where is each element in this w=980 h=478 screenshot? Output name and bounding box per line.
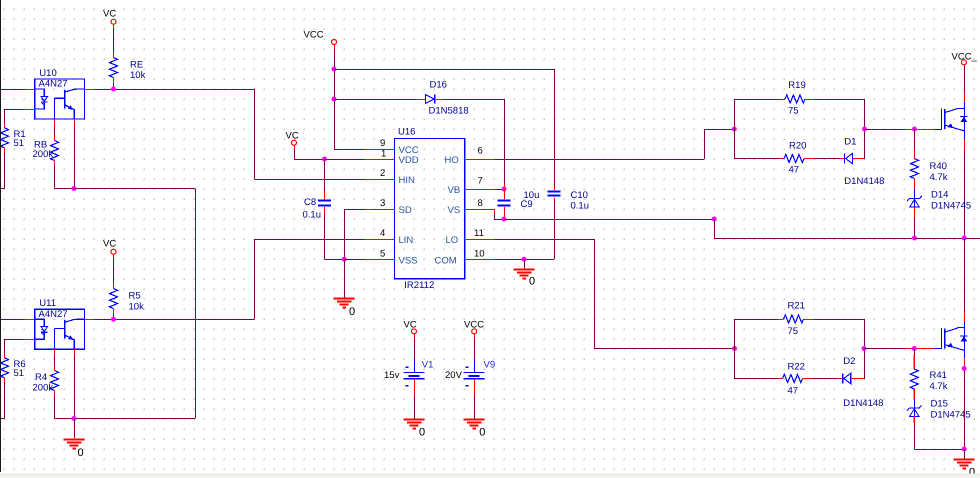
label D16 <box>430 79 447 90</box>
svg-text:VCC_: VCC_ <box>952 52 978 63</box>
svg-text:1: 1 <box>381 148 386 159</box>
svg-text:D1N5818: D1N5818 <box>429 106 469 117</box>
power terminal VCC (V9) <box>464 320 484 334</box>
ground (lower right) <box>954 460 975 469</box>
svg-text:R22: R22 <box>788 362 805 373</box>
pin name VB <box>448 185 461 196</box>
resistor R20 <box>784 155 804 163</box>
pin name COM <box>435 256 457 267</box>
wire U11 LED cathode <box>5 339 35 353</box>
junction right bar/gate wire (upper) <box>862 127 867 132</box>
wire COM ground stem <box>524 259 526 268</box>
wire collector to VCC_ (upper) <box>964 65 966 102</box>
svg-text:C8: C8 <box>304 197 316 208</box>
label R41 4.7k <box>930 370 948 392</box>
label R5 10k <box>129 291 145 313</box>
pin name LO <box>446 235 459 246</box>
wire emitter node to right riser <box>74 189 196 419</box>
svg-text:HIN: HIN <box>399 175 416 186</box>
power terminal VCC_ <box>952 52 978 65</box>
junction HO/network left bar <box>732 127 737 132</box>
svg-text:R5: R5 <box>129 291 141 302</box>
svg-text:R41: R41 <box>930 370 947 381</box>
pin number 7 <box>478 175 483 186</box>
label 0 (opto ground) <box>78 447 84 459</box>
label D14 <box>931 190 948 201</box>
optocoupler U10 <box>35 79 85 119</box>
wire R41 top <box>913 349 915 370</box>
junction R5/U11 collector <box>111 317 116 322</box>
wire C9 bottom to VS line <box>504 207 506 219</box>
svg-text:A4N27: A4N27 <box>39 309 68 320</box>
wire R4 bottom to emitter node <box>55 396 75 419</box>
pin name LIN <box>399 235 414 246</box>
resistor R5 <box>110 289 118 314</box>
junction U11 emitter/R4/ground <box>72 416 77 421</box>
svg-text:VC: VC <box>103 9 116 20</box>
junction VCC/D16 anode <box>332 97 337 102</box>
wire ground stem (lower right) <box>964 449 966 459</box>
wire C8 top <box>324 159 326 200</box>
svg-text:47: 47 <box>789 165 800 176</box>
wire VDD node to pin 1 <box>325 159 395 161</box>
diode D1 <box>845 153 853 163</box>
left window edge <box>0 0 1 472</box>
pin name SD <box>399 205 412 216</box>
wire LIN net to pin 4 <box>255 239 395 241</box>
power terminal VCC (top) <box>304 30 337 45</box>
junction gate/R41 <box>912 346 917 351</box>
pin 8 stub <box>465 209 495 211</box>
svg-text:D16: D16 <box>430 79 447 90</box>
pin 2 stub <box>365 179 395 181</box>
pin number 6 <box>478 145 483 156</box>
bottom window strip <box>0 474 980 478</box>
label R40 4.7k <box>930 161 948 183</box>
power terminal VC (VDD) <box>286 130 299 145</box>
svg-text:0: 0 <box>78 447 84 459</box>
pin number 2 <box>380 168 385 179</box>
junction VB/C9 <box>502 187 507 192</box>
label A4N27 (U11) <box>39 309 68 320</box>
diode D2 <box>843 373 851 383</box>
svg-text:D15: D15 <box>931 399 948 410</box>
label C10 0.1u <box>571 190 590 212</box>
svg-text:VSS: VSS <box>399 256 418 267</box>
wire VS output line to edge <box>915 238 980 240</box>
wire VC to VDD node <box>294 145 325 159</box>
label 15v <box>384 370 400 381</box>
junction emitter net (lower) <box>962 366 967 371</box>
capacitor C9 <box>498 189 511 206</box>
label U10 <box>39 68 56 79</box>
wire HO <box>495 129 735 160</box>
pin 9 stub <box>365 149 395 151</box>
resistor R21 <box>784 315 804 323</box>
junction emitter/ground (lower) <box>962 447 967 452</box>
wire V1 bottom <box>414 379 416 419</box>
capacitor C8 <box>318 201 331 206</box>
wire VS step down <box>714 219 914 239</box>
svg-text:D1N4745: D1N4745 <box>931 200 971 211</box>
wire collector to VS line (lower) <box>964 238 966 322</box>
label V1 <box>422 359 434 370</box>
label U16 <box>398 127 415 138</box>
diode D16 <box>425 95 435 104</box>
wire VS pin step <box>465 209 504 220</box>
wire LIN net vertical <box>254 239 256 319</box>
wire riser bottom to lower emitter node <box>74 418 195 420</box>
svg-text:51: 51 <box>14 138 25 149</box>
wire D14 to VS line <box>914 208 916 239</box>
label R4 200k <box>33 372 54 394</box>
svg-text:10k: 10k <box>130 70 146 81</box>
junction VDD/C8 <box>322 157 327 162</box>
pin number 4 <box>380 228 385 239</box>
pin number 11 <box>474 228 484 239</box>
pin 10 stub <box>465 259 495 261</box>
wire gate (lower) <box>864 348 935 350</box>
label 0 (VSS ground) <box>349 306 355 318</box>
svg-text:VCC: VCC <box>464 320 484 331</box>
power terminal VC (R5 pull-up) <box>103 239 116 255</box>
wire to R21 <box>735 319 784 321</box>
label R6 51 <box>14 359 26 379</box>
pin name HO <box>445 155 459 166</box>
wire U10 LED cathode <box>5 109 35 123</box>
ground (opto common) <box>64 440 85 449</box>
pin 3 stub <box>365 209 395 211</box>
svg-text:VC: VC <box>404 320 417 331</box>
capacitor C10 <box>548 186 561 201</box>
label A4N27 <box>39 79 68 90</box>
svg-text:LIN: LIN <box>399 235 414 246</box>
resistor R1 <box>1 123 9 153</box>
svg-text:0.1u: 0.1u <box>303 210 322 221</box>
wire SD to VSS node <box>344 209 394 259</box>
svg-text:VDD: VDD <box>399 155 419 166</box>
svg-text:V9: V9 <box>484 359 496 370</box>
voltage source V9 <box>464 367 485 386</box>
pin 7 stub <box>465 189 495 191</box>
junction VS/IGBT emitter-collector <box>962 236 967 241</box>
svg-text:D1N4745: D1N4745 <box>931 410 971 421</box>
svg-text:VCC: VCC <box>304 30 324 41</box>
junction D14/VS line <box>912 236 917 241</box>
wire network left bar (upper) <box>733 99 735 159</box>
wire V9 bottom <box>474 379 476 419</box>
svg-text:15v: 15v <box>384 370 400 381</box>
wire to R19 <box>734 99 785 101</box>
svg-text:R20: R20 <box>789 141 806 152</box>
svg-text:3: 3 <box>380 198 385 209</box>
IGBT Z2 (lower) <box>935 321 968 359</box>
label 0 (V1 ground) <box>419 427 425 439</box>
wire VS line <box>504 219 714 221</box>
svg-text:0: 0 <box>529 276 535 288</box>
wire HIN net to pin 2 <box>255 179 395 181</box>
junction VCC/top rail <box>332 67 337 72</box>
wire VCC down <box>334 45 336 150</box>
junction COM/C10/ground <box>522 257 527 262</box>
wire U11 base to R4 <box>54 349 56 370</box>
wire to D16 anode <box>334 99 425 101</box>
label D1N4148 (D1) <box>844 176 884 187</box>
svg-text:D14: D14 <box>931 190 948 201</box>
wire U10 LED anode (from left edge) <box>0 89 35 91</box>
junction VS/C9 <box>502 217 507 222</box>
svg-text:C9: C9 <box>521 199 533 210</box>
svg-text:C10: C10 <box>571 190 588 201</box>
label D1N4745 (D14) <box>931 200 971 211</box>
wire D1 to right bar <box>853 158 865 160</box>
pin number 9 <box>380 138 385 149</box>
wire V9 top <box>474 334 476 373</box>
svg-text:RE: RE <box>130 60 143 71</box>
label RE 10k <box>130 60 146 82</box>
svg-text:10k: 10k <box>129 302 145 313</box>
IC U16 IR2112 body <box>395 139 465 279</box>
wire network left bar (lower) <box>734 319 736 379</box>
svg-text:200k: 200k <box>33 382 54 393</box>
svg-text:R19: R19 <box>788 80 805 91</box>
svg-text:D2: D2 <box>843 356 855 367</box>
svg-text:HO: HO <box>445 155 459 166</box>
label D1N4148 (D2) <box>843 398 883 409</box>
label D2 <box>843 356 855 367</box>
svg-text:0: 0 <box>349 306 355 318</box>
pin 6 stub <box>465 159 495 161</box>
ground (COM) <box>514 270 535 279</box>
svg-text:4: 4 <box>380 228 385 239</box>
wire LO <box>495 239 735 349</box>
svg-text:U10: U10 <box>39 68 56 79</box>
svg-text:VC: VC <box>103 239 116 250</box>
wire U11 collector row <box>85 319 255 321</box>
label R20 47 <box>789 141 807 176</box>
svg-text:6: 6 <box>478 145 483 156</box>
resistor R6 <box>1 353 9 383</box>
pin number 1 <box>381 148 386 159</box>
svg-text:4.7k: 4.7k <box>930 172 948 183</box>
label 0 (lower right ground) <box>969 467 975 478</box>
wire U11 LED anode (from left edge) <box>0 319 35 321</box>
wire R6 bottom to left edge <box>0 383 5 419</box>
wire R21 to right bar <box>804 319 864 321</box>
optocoupler U11 <box>35 309 85 349</box>
wire V1 top <box>414 334 416 373</box>
pin 11 stub <box>465 239 495 241</box>
label U11 <box>39 298 56 309</box>
pin name VDD <box>399 155 419 166</box>
svg-text:U16: U16 <box>398 127 415 138</box>
wire D2 to right bar <box>851 378 864 380</box>
label R21 75 <box>788 301 805 338</box>
label C8 0.1u <box>303 197 322 221</box>
svg-text:VB: VB <box>448 185 461 196</box>
zener D15 <box>907 399 922 417</box>
wire network right bar (upper) <box>864 99 866 159</box>
svg-text:47: 47 <box>788 386 799 397</box>
power terminal VC (V1) <box>404 320 417 334</box>
pin number 5 <box>380 248 385 259</box>
svg-text:4.7k: 4.7k <box>930 381 948 392</box>
pin name VS <box>448 205 461 216</box>
junction RE/U10 collector <box>111 87 116 92</box>
label IR2112 <box>404 280 434 291</box>
label 20V <box>445 370 463 381</box>
label D1 <box>844 136 856 147</box>
svg-text:R21: R21 <box>788 301 805 312</box>
svg-text:VS: VS <box>448 205 461 216</box>
svg-text:10: 10 <box>474 248 485 259</box>
pin 4 stub <box>365 239 395 241</box>
pin name HIN <box>399 175 416 186</box>
power terminal VC (top, RE pull-up) <box>103 9 116 25</box>
wire emitter down (upper) <box>964 139 966 238</box>
wire R1 bottom to left edge <box>0 153 5 189</box>
junction right bar/gate wire (lower) <box>862 346 867 351</box>
svg-text:D1: D1 <box>844 136 856 147</box>
wire RB bottom to emitter node <box>55 166 75 189</box>
wire R20 to D1 <box>804 158 844 160</box>
ground (V9) <box>464 420 485 429</box>
svg-text:51: 51 <box>14 368 25 379</box>
wire R5 bottom to node <box>113 314 115 320</box>
wire D15 to emitter rail <box>914 417 964 450</box>
junction LO/network left bar <box>732 346 737 351</box>
label 0 (V9 ground) <box>479 427 485 439</box>
wire VCC to pin 9 <box>334 149 395 151</box>
wire network right bar (lower) <box>864 319 866 379</box>
wire D16 cathode to VB riser <box>435 99 505 189</box>
svg-text:200k: 200k <box>33 149 54 160</box>
wire U10 emitter down <box>74 119 76 189</box>
wire RE bottom to node <box>113 83 115 90</box>
wire R22 to D2 <box>803 378 843 380</box>
wire to ground (opto common) <box>74 419 76 439</box>
pin number 10 <box>474 248 485 259</box>
svg-text:SD: SD <box>399 205 412 216</box>
label RB 200k <box>33 139 54 160</box>
wire U11 emitter down <box>74 349 76 418</box>
pin 1 stub <box>365 159 395 161</box>
wire to R22 <box>735 378 783 380</box>
svg-text:0: 0 <box>479 427 485 439</box>
voltage source V1 <box>404 367 425 386</box>
junction VSS/SD/C8/ground <box>342 257 347 262</box>
svg-text:0.1u: 0.1u <box>571 200 590 211</box>
resistor R40 <box>911 159 919 190</box>
junction VS step <box>712 217 717 222</box>
resistor RB <box>51 141 59 166</box>
wire VC to RE <box>113 24 115 57</box>
wire R40 top <box>914 129 916 159</box>
svg-text:R40: R40 <box>930 161 947 172</box>
svg-text:U11: U11 <box>39 298 56 309</box>
label R1 51 <box>14 129 26 149</box>
svg-text:11: 11 <box>474 228 484 239</box>
label 10u C9 <box>521 190 540 210</box>
resistor R22 <box>783 375 803 383</box>
ground (V1) <box>404 420 425 429</box>
wire HIN net vertical <box>254 88 256 179</box>
pin name VCC <box>399 145 419 156</box>
zener D14 <box>907 190 922 208</box>
svg-text:8: 8 <box>478 198 483 209</box>
resistor R19 <box>785 95 805 103</box>
svg-text:D1N4148: D1N4148 <box>843 398 883 409</box>
svg-text:20V: 20V <box>445 370 463 381</box>
wire U10 collector row <box>85 89 255 91</box>
svg-text:D1N4148: D1N4148 <box>844 176 884 187</box>
svg-text:7: 7 <box>478 175 483 186</box>
svg-text:75: 75 <box>788 106 799 117</box>
svg-text:LO: LO <box>446 235 459 246</box>
wire to R20 <box>734 158 784 160</box>
wire gate (upper) <box>865 129 935 131</box>
svg-text:IR2112: IR2112 <box>404 280 434 291</box>
label R19 75 <box>788 80 806 117</box>
IGBT Z1 (upper) <box>935 102 968 140</box>
wire VSS node to ground <box>344 259 346 298</box>
resistor R4 <box>51 371 59 396</box>
resistor RE <box>110 58 118 83</box>
wire VB to C9 <box>495 189 504 191</box>
pin name VSS <box>399 256 418 267</box>
label R22 47 <box>788 362 805 397</box>
svg-text:2: 2 <box>380 168 385 179</box>
wire U10 base to RB <box>54 119 56 141</box>
wire COM to ground node <box>495 259 524 261</box>
wire C8 bottom to VSS node <box>325 207 345 260</box>
svg-text:R4: R4 <box>35 372 47 383</box>
svg-text:0: 0 <box>419 427 425 439</box>
label D1N4745 (D15) <box>931 410 971 421</box>
wire VC to R5 <box>113 254 115 288</box>
ground (VSS) <box>334 299 355 308</box>
pin number 8 <box>478 198 483 209</box>
label D15 <box>931 399 948 410</box>
label 0 (COM ground) <box>529 276 535 288</box>
wire top rail to C10 <box>334 69 555 186</box>
pin number 3 <box>380 198 385 209</box>
pin 5 stub <box>365 259 395 261</box>
wire emitter down (lower) <box>964 359 966 449</box>
svg-text:VC: VC <box>286 130 299 141</box>
svg-text:75: 75 <box>788 326 799 337</box>
resistor R41 <box>910 369 918 399</box>
junction U10 emitter/RB <box>72 186 77 191</box>
svg-text:A4N27: A4N27 <box>39 79 68 90</box>
wire VSS node to pin 5 <box>344 259 394 261</box>
wire C10 bottom to COM node <box>524 201 555 260</box>
svg-text:COM: COM <box>435 256 457 267</box>
label D1N5818 <box>429 106 469 117</box>
svg-text:5: 5 <box>380 248 385 259</box>
label V9 <box>484 359 496 370</box>
svg-text:V1: V1 <box>422 359 434 370</box>
junction gate/R40 <box>912 127 917 132</box>
wire R19 to right bar <box>805 99 864 101</box>
